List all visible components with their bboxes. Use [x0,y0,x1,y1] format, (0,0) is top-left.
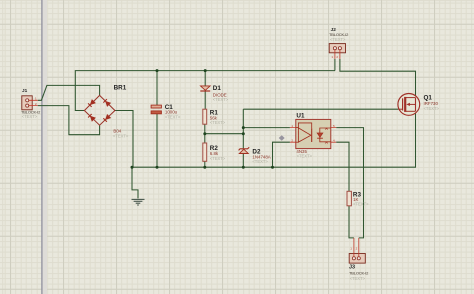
svg-text:<TEXT>: <TEXT> [210,120,226,125]
zener diode D2 [239,147,271,164]
diode D1 [200,85,229,102]
capacitor C1 [151,104,181,119]
svg-text:<TEXT>: <TEXT> [252,159,268,164]
svg-text:2: 2 [336,55,338,59]
svg-text:TBLOCK-I2: TBLOCK-I2 [349,271,369,276]
svg-text:U1: U1 [296,112,305,119]
wire J2 pin1 drop [334,59,336,71]
svg-text:<TEXT>: <TEXT> [22,114,38,119]
connector J3 [349,238,369,281]
svg-text:<TEXT>: <TEXT> [424,106,440,111]
wire Q1 gate [243,108,398,110]
wire D1 to R1 [204,92,206,110]
svg-text:2: 2 [291,138,293,142]
wire R2 to rail [204,161,206,167]
wire C1 bottom lead [156,114,158,167]
U1 internal LED [296,123,312,142]
wire node A horizontal [205,133,244,135]
resistor R2 [203,143,226,161]
wire U1 pin5 to J3 [336,128,363,238]
optocoupler U1 [290,112,336,158]
svg-text:2: 2 [356,247,358,251]
mosfet Q1 [398,94,440,116]
wire D2 bottom [242,154,244,168]
svg-text:1: 1 [331,55,333,59]
node marker diamond [279,135,285,141]
diode BR1 top-left [88,100,95,107]
svg-text:<TEXT>: <TEXT> [353,202,369,207]
wire J1 pin2 to BR1 bottom [38,106,100,135]
connector J2 [329,27,349,59]
svg-text:<TEXT>: <TEXT> [165,114,181,119]
wire BR1 right corner down [115,111,133,168]
wire BR1 left corner to top rail [75,71,335,111]
svg-text:1: 1 [350,247,352,251]
wire J2 pin2 to Q1 drain [340,59,416,97]
diode BR1 top-right [103,99,110,106]
resistor R3 [347,191,369,206]
wire U1 pin2 to rail [273,142,290,167]
wire J1 pin1 to BR1 top [38,85,100,100]
svg-text:BR1: BR1 [114,84,127,91]
svg-text:D1: D1 [213,85,222,92]
diode BR1 bottom-left [88,114,95,121]
resistor R1 [203,109,226,125]
svg-text:4: 4 [333,138,335,142]
svg-text:J1: J1 [22,88,28,93]
junction dots [131,69,275,169]
svg-text:<TEXT>: <TEXT> [350,276,366,281]
svg-text:<TEXT>: <TEXT> [210,156,226,161]
sheet border line [43,0,47,294]
wire ground drop [132,167,138,198]
wire U1 pin1 [243,127,290,129]
wire U1 pin4 to R3 [336,142,349,191]
diode BR1 bottom-right [103,114,110,121]
svg-text:<TEXT>: <TEXT> [330,37,346,42]
svg-text:J3: J3 [349,264,355,270]
connector J1 [21,88,41,119]
wire R3 to J3 [349,206,354,238]
ground [132,199,145,205]
svg-text:<TEXT>: <TEXT> [113,133,129,138]
wire vertical x243 [242,109,244,148]
wire bottom rail and Q1 source [132,112,416,167]
wire D1 top lead [204,71,206,86]
svg-text:<TEXT>: <TEXT> [297,154,313,159]
wire C1 top lead [156,71,158,106]
U1 internal phototransistor [317,128,331,143]
wire R1 to R2 [204,124,206,143]
svg-text:<TEXT>: <TEXT> [213,97,229,102]
bridge rectifier BR1 [84,84,129,138]
